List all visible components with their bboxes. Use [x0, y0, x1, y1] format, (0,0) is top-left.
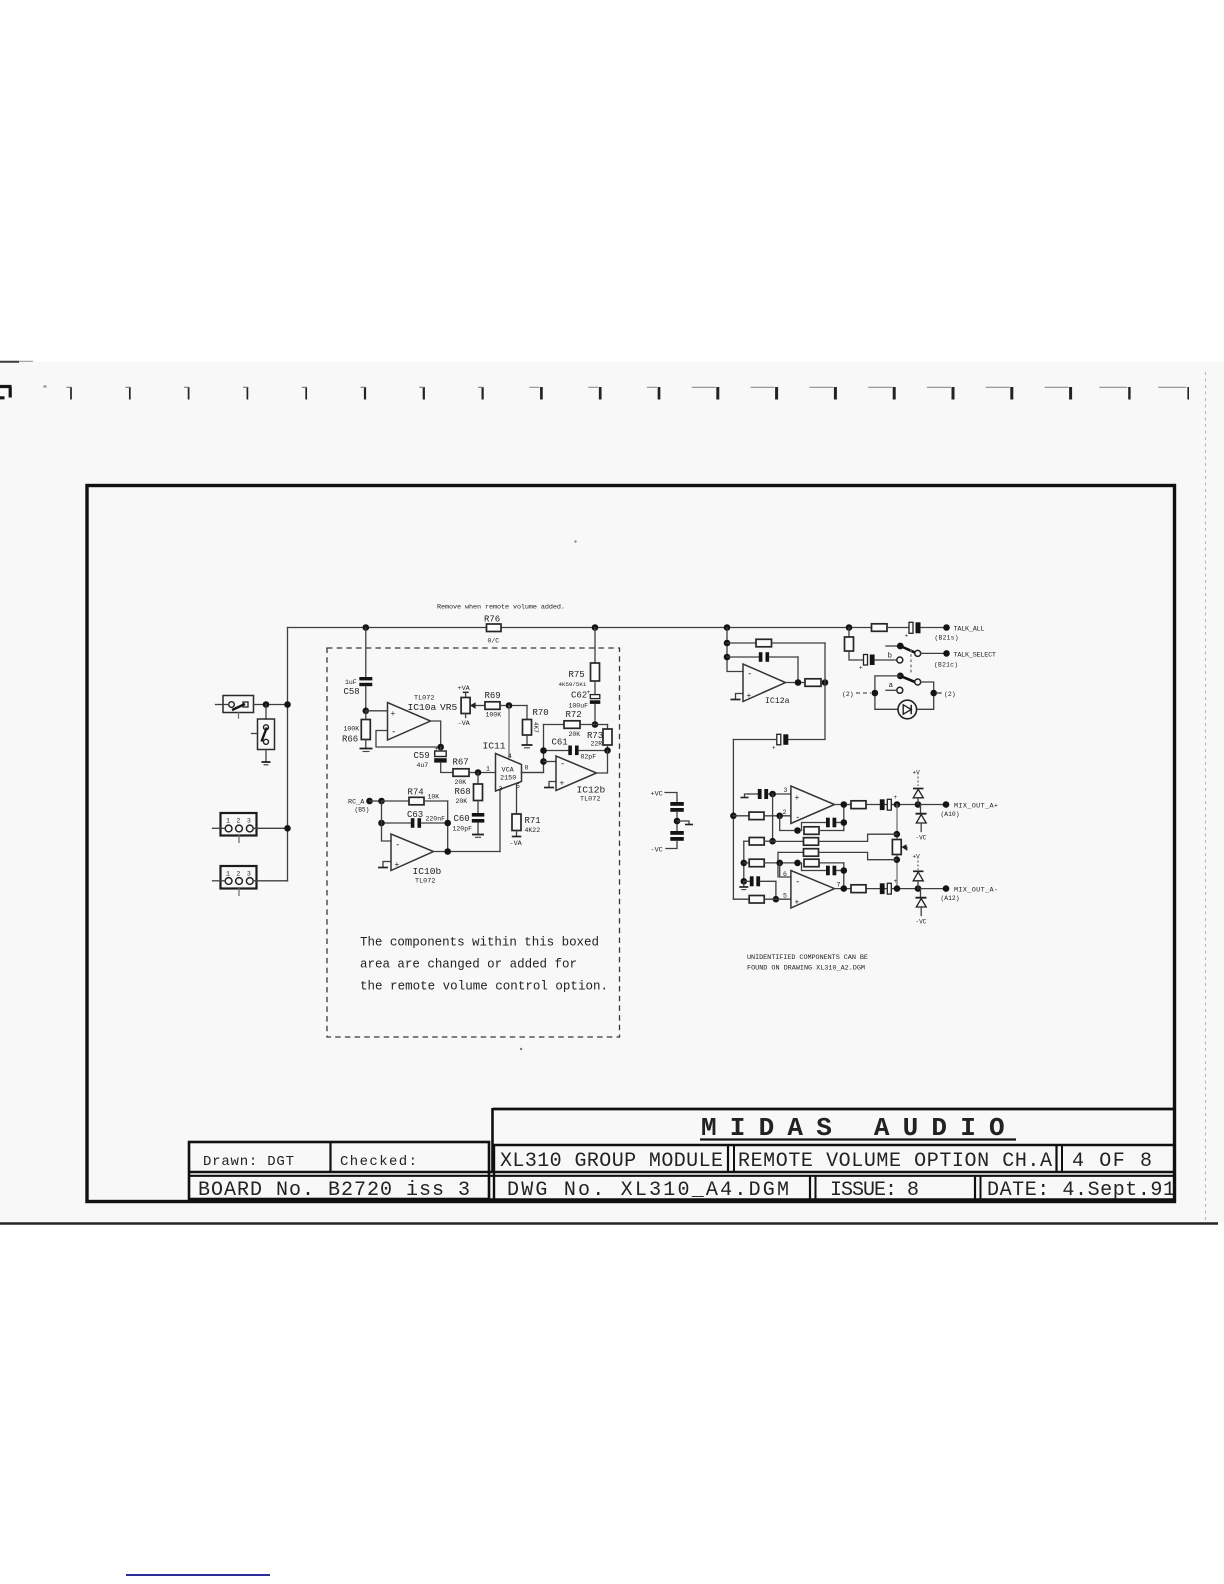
- node MIX_OUT_A- terminal: [941, 885, 999, 902]
- diode upper clamp -: [916, 805, 927, 842]
- ground SW2: [262, 762, 271, 765]
- node out lower diode: [915, 885, 922, 892]
- op-amp IC12b: [556, 756, 606, 804]
- note remove when remote volume added: [437, 604, 565, 612]
- wire IC12b feedback node: [522, 725, 544, 773]
- note unidentified components line 2: [747, 965, 865, 973]
- connector J1 1-2-3: [213, 813, 288, 843]
- ground bias: [677, 821, 693, 825]
- node pin5: [773, 896, 780, 903]
- title block: left box (Drawn / Checked): [189, 1142, 489, 1199]
- node mix row3 right: [769, 838, 776, 845]
- wire R69 node down to IC11 pin4: [508, 706, 510, 760]
- resistor mix mid A: [773, 834, 897, 845]
- node R67/R68/IC11 pin1: [475, 769, 482, 776]
- svg-text:RC_A: RC_A: [348, 799, 365, 807]
- svg-text:10K: 10K: [428, 794, 440, 801]
- scan speck 2: [520, 1048, 522, 1050]
- ground row5: [739, 881, 748, 889]
- svg-text:-VA: -VA: [510, 840, 523, 848]
- wire node column a: [772, 794, 774, 841]
- svg-text:b: b: [888, 653, 893, 661]
- resistor mix upper fb: [804, 827, 844, 835]
- wire talkback loop right: [917, 682, 934, 709]
- film registration mark 5: [302, 387, 307, 400]
- node C58/R66/IC10a: [363, 708, 370, 715]
- wire IC11 pin5 down: [516, 784, 518, 814]
- capacitor talk return: [733, 734, 788, 751]
- svg-text:20K: 20K: [456, 798, 468, 805]
- node fb cap right: [841, 819, 848, 826]
- svg-text:R70: R70: [533, 708, 549, 718]
- svg-text:MIX_OUT_A+: MIX_OUT_A+: [954, 803, 998, 811]
- capacitor mix in upper: [749, 789, 791, 799]
- film registration mark 2: [125, 387, 130, 400]
- resistor mix mid B: [778, 849, 897, 860]
- svg-text:C59: C59: [414, 751, 430, 761]
- resistor R72: [544, 710, 608, 738]
- label +VC lower diode: [913, 854, 921, 871]
- node C63 right: [444, 820, 451, 827]
- potentiometer VR5: [440, 685, 485, 728]
- capacitor C60: [453, 813, 485, 834]
- svg-text:(A12): (A12): [941, 895, 960, 902]
- node IC12a fb R: [724, 640, 731, 647]
- node TALK_SELECT terminal: [934, 650, 996, 668]
- svg-text:C61: C61: [552, 738, 568, 748]
- resistor R71: [510, 814, 541, 848]
- svg-text:(2): (2): [944, 691, 956, 698]
- svg-text:C60: C60: [454, 814, 470, 824]
- diode lower clamp +: [913, 871, 924, 888]
- svg-text:+: +: [859, 665, 863, 672]
- node fb lower cap right: [841, 867, 848, 874]
- capacitor C58: [344, 628, 373, 712]
- svg-text:Checked:: Checked:: [340, 1154, 417, 1170]
- capacitor C61: [544, 738, 608, 761]
- film registration mark 19: [1099, 387, 1129, 400]
- svg-text:0/C: 0/C: [488, 638, 500, 645]
- svg-text:82pF: 82pF: [581, 754, 597, 761]
- svg-text:-VC: -VC: [916, 835, 927, 842]
- node mix upper pin3: [769, 791, 776, 798]
- wire IC10a feedback: [376, 731, 441, 748]
- film registration mark 20: [1158, 387, 1188, 400]
- ground IC12a plus: [731, 694, 744, 700]
- title text 4 OF 8: [1072, 1150, 1152, 1173]
- switch link dashed: [910, 649, 912, 673]
- scan speck 1: [574, 540, 576, 542]
- node R74/C63 left: [378, 798, 385, 805]
- svg-text:4K22: 4K22: [525, 827, 541, 834]
- svg-text:-: -: [395, 841, 400, 851]
- film registration mark 3: [184, 387, 189, 400]
- svg-text:+: +: [435, 746, 439, 753]
- node out upper b: [894, 801, 901, 808]
- capacitor mix row5: [744, 876, 776, 886]
- svg-text:the remote volume control opti: the remote volume control option.: [360, 980, 608, 994]
- film registration mark 8: [478, 387, 483, 400]
- svg-text:22R: 22R: [591, 741, 603, 748]
- title text XL310 GROUP MODULE: [500, 1150, 723, 1173]
- node TALK_ALL terminal: [935, 624, 985, 641]
- title text REMOTE VOLUME OPTION CH.A: [738, 1150, 1052, 1173]
- svg-text:120pF: 120pF: [453, 826, 473, 833]
- svg-text:(A10): (A10): [941, 811, 960, 818]
- resistor R67: [453, 758, 479, 787]
- wire SW1 to SW2: [265, 705, 267, 720]
- wire IC10a output: [431, 721, 441, 747]
- wire talk return down: [788, 643, 825, 740]
- wire IC12b output: [597, 751, 608, 774]
- svg-text:R67: R67: [453, 758, 469, 768]
- svg-text:-: -: [391, 728, 396, 738]
- svg-text:C58: C58: [344, 687, 360, 697]
- op-amp IC12a: [743, 664, 790, 706]
- svg-text:(B21s): (B21s): [935, 635, 959, 642]
- label +VC upper diode: [913, 770, 921, 787]
- title block row divider: [189, 1172, 1174, 1176]
- node talkback right: [930, 690, 937, 697]
- svg-text:R71: R71: [525, 816, 541, 826]
- label (2) left: [842, 691, 871, 698]
- svg-text:2150: 2150: [500, 775, 516, 783]
- note text line 1: [360, 936, 599, 950]
- svg-text:VCA: VCA: [502, 767, 515, 775]
- svg-text:1uF: 1uF: [345, 679, 357, 686]
- svg-text:3: 3: [247, 871, 251, 878]
- svg-text:R74: R74: [408, 788, 424, 798]
- film registration mark 10: [588, 387, 600, 400]
- svg-text:R73: R73: [587, 731, 603, 741]
- note unidentified components line 1: [747, 954, 868, 962]
- resistor talk select: [845, 628, 864, 661]
- svg-text:C63: C63: [407, 810, 423, 820]
- svg-text:R72: R72: [566, 710, 582, 720]
- svg-text:BOARD No. B2720 iss 3: BOARD No. B2720 iss 3: [198, 1179, 470, 1202]
- node top bus / R75: [592, 624, 599, 631]
- svg-text:-: -: [747, 670, 752, 680]
- svg-text:+: +: [395, 861, 400, 870]
- svg-text:R76: R76: [484, 615, 500, 625]
- title block: right lower box verticals: [189, 1145, 1174, 1200]
- node out lower b: [894, 885, 901, 892]
- svg-text:2: 2: [783, 809, 787, 816]
- capacitor C59: [414, 746, 454, 773]
- node C61/R73/IC12b out: [604, 747, 611, 754]
- wire row5 to pin5 column: [775, 881, 777, 899]
- drawing sheet frame: [87, 486, 1175, 1202]
- capacitor C62: [569, 689, 601, 725]
- svg-text:7: 7: [837, 882, 841, 889]
- film registration mark 6: [361, 387, 366, 400]
- film registration mark 14: [809, 387, 835, 400]
- svg-text:1: 1: [226, 818, 230, 825]
- svg-text:Remove when remote volume adde: Remove when remote volume added.: [437, 604, 565, 612]
- capacitor mix lower out: [880, 878, 898, 894]
- wire mix upper output row: [835, 804, 947, 806]
- resistor R76: [484, 615, 501, 645]
- svg-text:8: 8: [525, 765, 529, 772]
- title text Checked:: [340, 1154, 417, 1170]
- title block: MIDAS AUDIO box: [493, 1108, 1175, 1172]
- title text ISSUE: 8: [830, 1179, 919, 1202]
- node out lower a: [841, 885, 848, 892]
- ground R66: [360, 749, 373, 752]
- svg-text:The components within this box: The components within this boxed: [360, 936, 599, 950]
- wire mid B column: [777, 852, 779, 877]
- title text Drawn: DGT: [203, 1154, 294, 1170]
- svg-text:TALK_ALL: TALK_ALL: [954, 626, 985, 634]
- dashed option box: [327, 648, 620, 1037]
- svg-text:2: 2: [236, 818, 240, 825]
- blue pen mark bottom left: [126, 1574, 270, 1576]
- resistor mix upper out: [851, 801, 866, 809]
- resistor mix row6: [733, 896, 791, 904]
- node row5 left: [741, 878, 748, 885]
- svg-text:2: 2: [236, 871, 240, 878]
- svg-text:-VC: -VC: [916, 919, 927, 926]
- svg-text:C62: C62: [571, 691, 587, 701]
- node top bus / talk: [846, 624, 853, 631]
- svg-text:5: 5: [783, 893, 787, 900]
- svg-text:IC12a: IC12a: [765, 697, 790, 706]
- svg-text:+: +: [795, 899, 800, 908]
- svg-text:+: +: [894, 878, 898, 885]
- title text BOARD No. B2720 iss 3: [198, 1179, 470, 1202]
- resistor IC12a output: [805, 679, 825, 687]
- ground mix in upper: [741, 794, 749, 798]
- node bias mid: [674, 818, 681, 825]
- switch SW2: [252, 719, 275, 762]
- node rail row2: [730, 813, 737, 820]
- wire output stage left rail: [732, 740, 734, 900]
- note text line 3: [360, 980, 608, 994]
- svg-text:IC12b: IC12b: [577, 785, 606, 796]
- pin label 3: [784, 787, 788, 794]
- node out upper a: [841, 801, 848, 808]
- resistor R75: [559, 628, 600, 697]
- film registration mark 17: [986, 387, 1012, 400]
- ground IC10b plus: [378, 862, 391, 868]
- node R72/R75: [592, 721, 599, 728]
- film registration mark 13: [751, 387, 777, 400]
- svg-text:(2): (2): [842, 691, 854, 698]
- pin label 6: [783, 871, 787, 878]
- diode lower clamp -: [916, 889, 927, 926]
- film registration mark 7: [419, 387, 424, 400]
- diode upper clamp +: [913, 789, 924, 805]
- svg-text:20K: 20K: [455, 779, 467, 786]
- svg-text:+V: +V: [913, 854, 921, 861]
- svg-text:3: 3: [247, 818, 251, 825]
- svg-text:FOUND ON DRAWING XL310_A2.DGM: FOUND ON DRAWING XL310_A2.DGM: [747, 965, 865, 973]
- svg-text:area are changed or added for: area are changed or added for: [360, 958, 577, 972]
- capacitor talk select: [859, 655, 897, 672]
- node trimmer top: [894, 831, 901, 838]
- node RC_A: [348, 798, 382, 814]
- wire mix lower out column: [843, 863, 845, 889]
- film registration speck: [44, 386, 47, 388]
- svg-text:+V: +V: [913, 770, 921, 777]
- title text DWG No. XL310_A4.DGM: [507, 1179, 789, 1202]
- svg-text:a: a: [889, 682, 894, 690]
- bias label -VC: [651, 847, 663, 855]
- wire trimmer rail: [896, 805, 898, 889]
- film registration mark 12: [692, 387, 718, 400]
- svg-text:MIX_OUT_A-: MIX_OUT_A-: [954, 887, 998, 895]
- capacitor IC12a feedback: [727, 652, 798, 682]
- svg-text:+: +: [391, 710, 396, 719]
- node IC10b out / R74: [444, 848, 451, 855]
- svg-text:IC10a: IC10a: [408, 702, 437, 713]
- title text MIDAS AUDIO: [700, 1113, 1018, 1143]
- ground C60: [472, 835, 484, 838]
- node IC12a out fbR: [822, 679, 829, 686]
- node C63 left: [378, 820, 385, 827]
- svg-text:+: +: [560, 780, 565, 789]
- op-amp mix upper: [791, 786, 835, 824]
- node J1/rail: [284, 825, 291, 832]
- bias label +VC: [651, 791, 678, 803]
- svg-text:R69: R69: [485, 691, 501, 701]
- film registration mark 18: [1045, 387, 1071, 400]
- film registration mark 1: [67, 387, 72, 400]
- svg-text:4u7: 4u7: [417, 762, 429, 769]
- film registration mark 0: [0, 387, 12, 398]
- op-amp IC10b: [391, 834, 442, 886]
- pin label 5: [783, 893, 787, 900]
- svg-text:-: -: [795, 878, 800, 888]
- resistor R73: [587, 725, 612, 751]
- svg-text:(B5): (B5): [355, 807, 370, 814]
- svg-text:4: 4: [508, 753, 512, 760]
- resistor R68: [455, 773, 483, 814]
- ground IC12b plus: [544, 782, 556, 788]
- node row4 left: [741, 860, 748, 867]
- svg-text:1: 1: [226, 871, 230, 878]
- switch SW1: [216, 696, 288, 719]
- node trimmer bottom: [894, 856, 901, 863]
- wire IC12a input column: [727, 628, 743, 672]
- svg-text:DATE: 4.Sept.91: DATE: 4.Sept.91: [987, 1179, 1175, 1202]
- svg-text:TL072: TL072: [415, 878, 435, 886]
- svg-text:+: +: [772, 745, 776, 752]
- node fb upper: [540, 747, 547, 754]
- resistor mix lower out: [851, 885, 866, 893]
- svg-text:-: -: [560, 760, 565, 770]
- svg-text:R68: R68: [455, 787, 471, 797]
- node mix lower pin6: [776, 860, 783, 867]
- svg-text:4K59/5K1: 4K59/5K1: [559, 681, 587, 688]
- svg-text:220nF: 220nF: [426, 816, 446, 823]
- page right edge dotted: [1205, 372, 1207, 1222]
- wire mix upper out column: [843, 805, 845, 831]
- svg-text:3: 3: [784, 787, 788, 794]
- svg-text:VR5: VR5: [440, 702, 458, 713]
- capacitor talk all: [905, 622, 947, 639]
- node IC12a fb C: [724, 654, 731, 661]
- wire IC11 pin8: [522, 772, 544, 774]
- wire row3 left column: [743, 841, 745, 881]
- svg-text:-VC: -VC: [651, 847, 663, 855]
- node SW1/rail: [284, 701, 291, 708]
- wire IC12a output: [786, 682, 806, 684]
- page top-left edge line: [0, 360, 33, 363]
- svg-text:6: 6: [783, 871, 787, 878]
- wire left input rail: [287, 628, 289, 881]
- op-amp IC10a: [366, 695, 437, 741]
- node top bus / C58: [363, 624, 370, 631]
- svg-text:4K7: 4K7: [532, 722, 539, 733]
- svg-text:1: 1: [486, 766, 490, 773]
- node top bus / IC12a: [724, 624, 731, 631]
- svg-text:IC11: IC11: [483, 741, 506, 752]
- capacitor mix lower fb: [802, 863, 844, 875]
- wire IC11 pin3 down: [499, 790, 501, 852]
- capacitor mix upper out: [880, 794, 898, 810]
- svg-text:TALK_SELECT: TALK_SELECT: [954, 652, 997, 660]
- resistor R70: [523, 706, 549, 745]
- wire R74 right down: [447, 801, 449, 852]
- note text line 2: [360, 958, 577, 972]
- capacitor C63: [382, 810, 448, 828]
- svg-text:UNIDENTIFIED COMPONENTS CAN BE: UNIDENTIFIED COMPONENTS CAN BE: [747, 954, 868, 962]
- svg-text:+: +: [905, 633, 909, 640]
- node out upper diode: [915, 801, 922, 808]
- resistor mix row4: [744, 859, 798, 867]
- ground R70: [522, 745, 533, 748]
- pin label 2: [783, 809, 787, 816]
- film registration mark 16: [927, 387, 953, 400]
- label (2) right: [937, 691, 956, 698]
- svg-text:IC10b: IC10b: [413, 866, 442, 877]
- svg-text:+: +: [894, 794, 898, 801]
- node fb lower left: [794, 860, 801, 867]
- resistor R74: [382, 788, 448, 805]
- wire mix lower output row: [835, 888, 947, 890]
- node R69/R70/IC11: [506, 702, 513, 709]
- film registration mark 4: [243, 387, 248, 400]
- wire IC11 pin1: [478, 772, 496, 774]
- LED talkback: [898, 700, 917, 719]
- connector J2 1-2-3: [213, 866, 288, 896]
- svg-text:R75: R75: [569, 670, 585, 680]
- svg-text:100uF: 100uF: [569, 703, 589, 710]
- capacitor bias upper: [670, 802, 684, 831]
- svg-text:XL310 GROUP MODULE: XL310 GROUP MODULE: [500, 1150, 723, 1173]
- title text DATE: 4.Sept.91: [987, 1179, 1175, 1202]
- node SW1/SW2: [263, 701, 270, 708]
- svg-text:-VA: -VA: [458, 720, 471, 728]
- svg-text:+: +: [795, 794, 800, 803]
- op-amp mix lower: [791, 871, 841, 909]
- resistor R66: [342, 711, 370, 748]
- resistor mix row3: [744, 838, 773, 846]
- capacitor bias lower: [666, 831, 684, 849]
- svg-text:REMOTE VOLUME OPTION CH.A: REMOTE VOLUME OPTION CH.A: [738, 1150, 1052, 1173]
- wire mix lower pin6: [780, 863, 791, 877]
- node MIX_OUT_A+ terminal: [941, 801, 999, 818]
- resistor IC12a feedback: [727, 639, 825, 647]
- vca IC11: [483, 741, 529, 793]
- wire IC10b output to IC11 pin3: [434, 851, 501, 853]
- svg-text:100K: 100K: [344, 726, 360, 733]
- svg-text:ISSUE: 8: ISSUE: 8: [830, 1179, 919, 1202]
- svg-text:+: +: [747, 692, 752, 701]
- svg-text:20K: 20K: [569, 731, 581, 738]
- svg-text:4 OF 8: 4 OF 8: [1072, 1150, 1152, 1173]
